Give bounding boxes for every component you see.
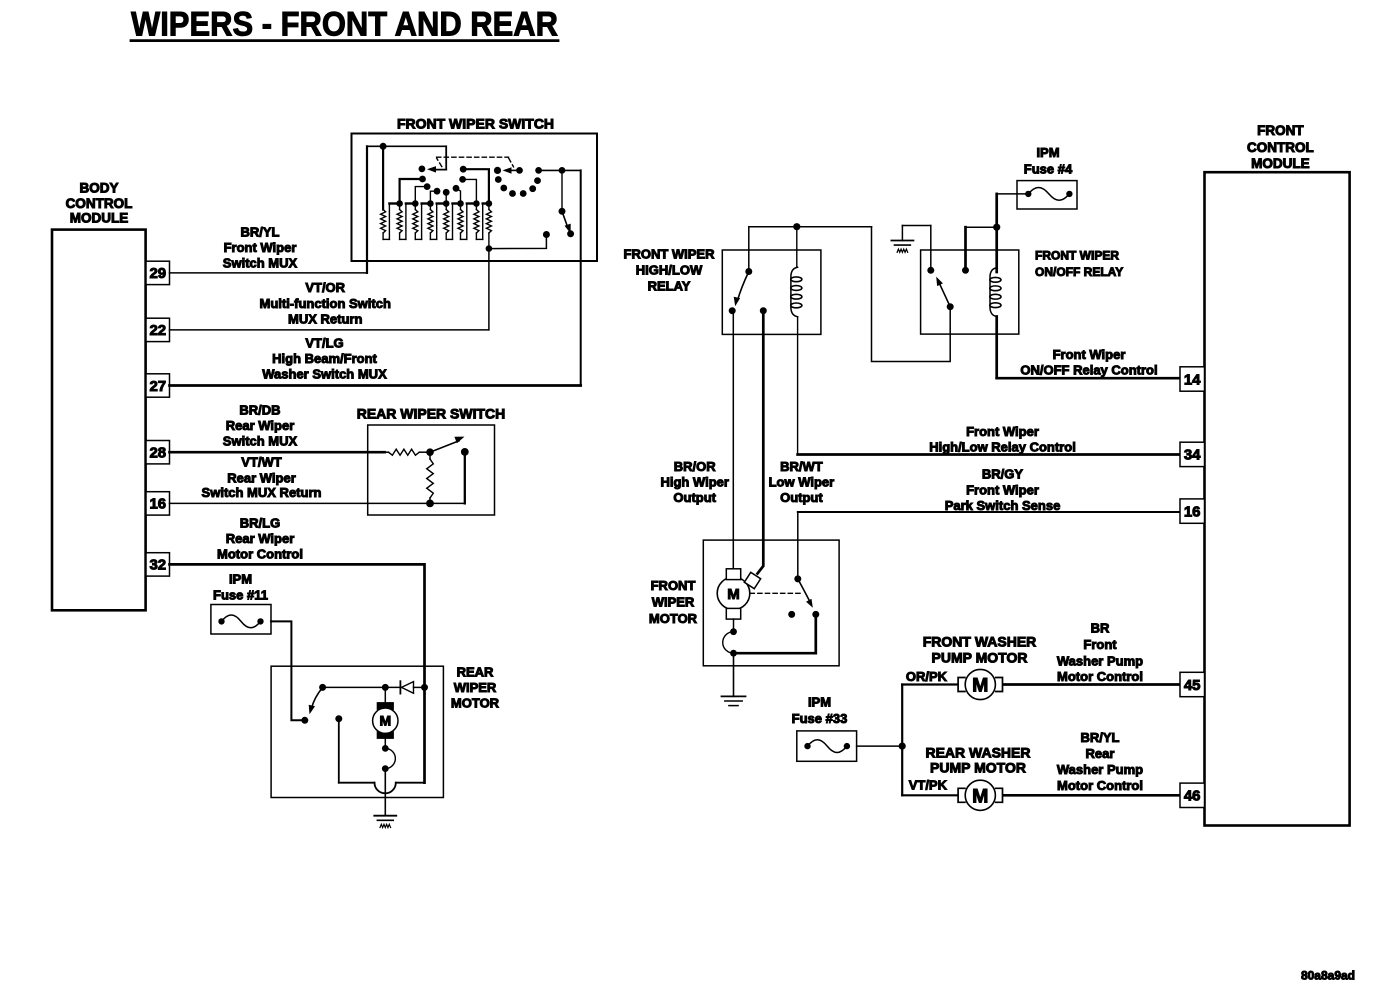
svg-text:80a8a9ad: 80a8a9ad — [1301, 969, 1355, 983]
svg-text:WIPERS - FRONT AND REAR: WIPERS - FRONT AND REAR — [131, 5, 558, 43]
svg-text:M: M — [379, 713, 391, 729]
svg-text:Front Wiper: Front Wiper — [966, 483, 1039, 498]
svg-text:OR/PK: OR/PK — [906, 669, 948, 684]
svg-text:Switch MUX Return: Switch MUX Return — [202, 485, 322, 500]
svg-text:46: 46 — [1184, 788, 1201, 805]
svg-text:14: 14 — [1184, 371, 1201, 388]
svg-text:Output: Output — [780, 490, 823, 505]
svg-text:MODULE: MODULE — [70, 210, 129, 225]
svg-text:Rear: Rear — [1086, 746, 1115, 761]
svg-text:VT/WT: VT/WT — [241, 455, 281, 470]
svg-text:Multi-function Switch: Multi-function Switch — [259, 296, 390, 311]
svg-text:WIPER: WIPER — [652, 595, 695, 610]
svg-text:CONTROL: CONTROL — [1247, 140, 1314, 155]
svg-text:Rear Wiper: Rear Wiper — [226, 418, 295, 433]
svg-text:WIPER: WIPER — [454, 680, 497, 695]
svg-text:Washer Pump: Washer Pump — [1057, 654, 1143, 669]
svg-text:M: M — [972, 675, 988, 697]
svg-text:32: 32 — [149, 557, 166, 574]
svg-text:Washer Switch MUX: Washer Switch MUX — [262, 367, 387, 382]
svg-text:34: 34 — [1184, 447, 1201, 464]
svg-text:IPM: IPM — [1036, 145, 1059, 160]
svg-text:ON/OFF Relay Control: ON/OFF Relay Control — [1020, 363, 1157, 378]
svg-text:Fuse #33: Fuse #33 — [792, 711, 848, 726]
svg-text:27: 27 — [149, 378, 166, 395]
svg-text:29: 29 — [149, 265, 166, 282]
svg-text:Switch MUX: Switch MUX — [223, 434, 298, 449]
svg-text:M: M — [972, 785, 988, 807]
svg-text:BR/YL: BR/YL — [1081, 730, 1120, 745]
svg-text:16: 16 — [1184, 503, 1201, 520]
svg-text:Switch MUX: Switch MUX — [223, 255, 298, 270]
svg-text:BR/YL: BR/YL — [241, 225, 280, 240]
svg-text:REAR: REAR — [457, 665, 494, 680]
svg-text:FRONT WASHER: FRONT WASHER — [923, 633, 1037, 649]
svg-text:45: 45 — [1184, 677, 1201, 694]
svg-text:Low Wiper: Low Wiper — [769, 475, 835, 490]
svg-text:High/Low Relay Control: High/Low Relay Control — [929, 440, 1076, 455]
svg-text:22: 22 — [149, 322, 166, 339]
svg-text:ON/OFF RELAY: ON/OFF RELAY — [1035, 265, 1123, 279]
svg-text:MOTOR: MOTOR — [649, 611, 698, 626]
svg-text:PUMP MOTOR: PUMP MOTOR — [932, 649, 1028, 665]
svg-text:VT/PK: VT/PK — [909, 778, 948, 793]
svg-text:BODY: BODY — [79, 180, 118, 195]
svg-text:IPM: IPM — [808, 695, 831, 710]
svg-text:MOTOR: MOTOR — [451, 696, 500, 711]
svg-text:Front: Front — [1083, 637, 1117, 652]
svg-text:FRONT WIPER: FRONT WIPER — [624, 247, 716, 262]
svg-text:BR/GY: BR/GY — [982, 467, 1024, 482]
svg-text:Motor Control: Motor Control — [1057, 778, 1143, 793]
svg-text:Front Wiper: Front Wiper — [224, 240, 297, 255]
svg-text:Fuse #4: Fuse #4 — [1024, 162, 1073, 177]
svg-text:16: 16 — [149, 496, 166, 513]
svg-text:VT/LG: VT/LG — [305, 335, 343, 350]
svg-text:BR/DB: BR/DB — [239, 403, 280, 418]
svg-text:BR/LG: BR/LG — [240, 516, 280, 531]
svg-text:Front Wiper: Front Wiper — [1053, 347, 1126, 362]
svg-text:M: M — [727, 586, 740, 603]
svg-text:Rear Wiper: Rear Wiper — [226, 531, 295, 546]
svg-text:MODULE: MODULE — [1251, 156, 1310, 171]
svg-text:High Beam/Front: High Beam/Front — [272, 351, 377, 366]
svg-text:BR/WT: BR/WT — [780, 459, 823, 474]
svg-text:Washer Pump: Washer Pump — [1057, 762, 1143, 777]
svg-text:Motor Control: Motor Control — [1057, 669, 1143, 684]
svg-text:REAR WASHER: REAR WASHER — [925, 744, 1030, 760]
svg-text:Fuse #11: Fuse #11 — [213, 588, 268, 603]
svg-text:FRONT WIPER: FRONT WIPER — [1035, 249, 1119, 263]
svg-text:FRONT: FRONT — [651, 578, 696, 593]
svg-text:PUMP MOTOR: PUMP MOTOR — [930, 760, 1026, 776]
svg-text:Output: Output — [673, 490, 716, 505]
svg-text:HIGH/LOW: HIGH/LOW — [636, 263, 703, 278]
svg-text:VT/OR: VT/OR — [305, 280, 345, 295]
svg-text:CONTROL: CONTROL — [66, 196, 133, 211]
svg-text:MUX Return: MUX Return — [288, 312, 362, 327]
svg-text:FRONT WIPER SWITCH: FRONT WIPER SWITCH — [397, 116, 554, 132]
svg-text:Motor Control: Motor Control — [217, 547, 303, 562]
svg-text:Rear Wiper: Rear Wiper — [227, 471, 296, 486]
svg-text:Park Switch Sense: Park Switch Sense — [945, 498, 1061, 513]
svg-text:BR/OR: BR/OR — [674, 459, 717, 474]
svg-text:IPM: IPM — [229, 572, 252, 587]
svg-text:High Wiper: High Wiper — [660, 475, 729, 490]
svg-text:FRONT: FRONT — [1257, 123, 1304, 138]
svg-text:REAR WIPER SWITCH: REAR WIPER SWITCH — [357, 406, 506, 422]
svg-text:RELAY: RELAY — [648, 279, 691, 294]
svg-text:BR: BR — [1091, 620, 1110, 635]
svg-text:Front Wiper: Front Wiper — [966, 424, 1039, 439]
svg-text:28: 28 — [149, 445, 166, 462]
